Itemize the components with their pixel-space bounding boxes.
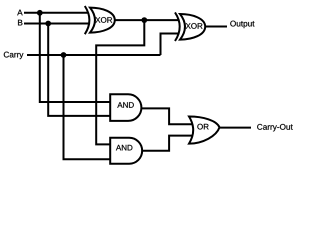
XOR gate U1 (A xor B) input back curve	[85, 6, 90, 34]
label Output	[230, 21, 254, 28]
XOR gate U2 (sum) input back curve	[175, 12, 180, 41]
wire XOR1 output to XOR2 upper input	[115, 19, 179, 21]
node junction dot on Carry	[61, 52, 67, 58]
wire Carry branch down to AND2 lower input	[64, 55, 112, 159]
wire B input horizontal	[24, 23, 89, 25]
label OR gate U5	[197, 124, 208, 130]
AND gate U3 (upper) body	[110, 94, 141, 121]
AND gate U4 (lower) body	[110, 138, 142, 164]
wire OR output to Carry-Out label	[220, 127, 252, 129]
XOR gate U2 body	[180, 14, 205, 40]
node junction dot on XOR1 output	[141, 17, 147, 23]
wire AND2 output to OR lower input	[142, 136, 192, 151]
label A	[17, 10, 22, 16]
label AND gate U4	[116, 145, 132, 151]
wire XOR1-output branch down-left-down to AND2 upper input	[96, 20, 144, 144]
label Carry-Out	[257, 124, 293, 131]
XOR gate U1 body	[90, 8, 115, 33]
label AND gate U3	[117, 102, 133, 108]
wire AND1 output to OR upper input	[141, 108, 192, 124]
node junction dot on B	[45, 21, 51, 27]
OR gate U5 body	[189, 117, 220, 144]
wire XOR2 output to Output label	[205, 26, 227, 28]
wire A branch down to AND1 upper input	[40, 13, 111, 102]
wire A input horizontal	[24, 12, 88, 14]
wire Carry up to XOR2 lower input	[161, 34, 179, 56]
label B	[18, 20, 22, 26]
label XOR gate U2	[186, 23, 203, 29]
wire Carry input horizontal	[27, 54, 161, 56]
label Carry	[4, 52, 24, 59]
node junction dot on A	[37, 10, 43, 16]
label XOR gate U1	[95, 17, 112, 23]
wire B branch down to AND1 lower input	[48, 24, 111, 116]
